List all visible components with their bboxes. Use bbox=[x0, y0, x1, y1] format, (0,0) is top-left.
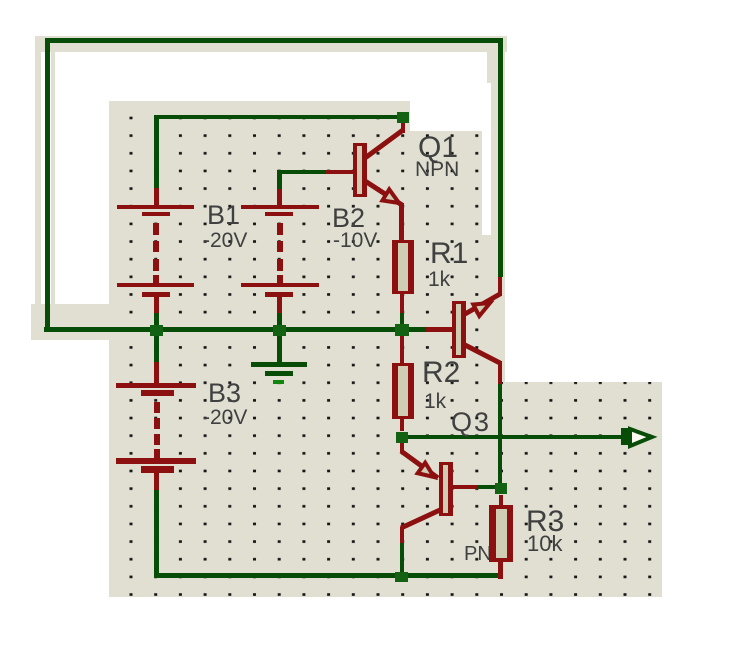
resistor R3 bbox=[489, 505, 513, 562]
wire: B3 bottom green bbox=[154, 490, 159, 578]
grid background: main sheet bbox=[109, 101, 488, 597]
transistor Q1 base lead red bbox=[326, 170, 354, 174]
wire: B1 bottom pin red bbox=[154, 297, 159, 313]
wire: R2 top pin red bbox=[400, 336, 404, 363]
transistor Q2 lower diagonal bbox=[465, 345, 500, 363]
transistor Q2 emitter arrow bbox=[473, 303, 490, 316]
battery B2 cell1 long plate bbox=[241, 205, 319, 209]
grid background: right wire band bbox=[487, 36, 505, 383]
wire: R2 bottom pin red bbox=[400, 419, 404, 431]
wire: output bbox=[408, 435, 622, 439]
grid background: mid bus band bbox=[31, 304, 109, 340]
wire: B3 bottom pin red bbox=[154, 473, 159, 490]
svg-text:1k: 1k bbox=[428, 268, 451, 291]
svg-text:Q3: Q3 bbox=[451, 407, 491, 437]
wire: B1 bottom green bbox=[154, 313, 159, 327]
white sliver bbox=[482, 83, 491, 235]
battery B3 cell2 short plate bbox=[141, 466, 174, 473]
wire: outer loop top bbox=[46, 38, 503, 43]
transistor Q3 collector wire bbox=[401, 510, 440, 528]
grid dots main sheet bbox=[109, 104, 488, 597]
white notch top right bbox=[410, 52, 487, 131]
battery B2 cell2 long plate bbox=[241, 283, 319, 287]
wire: B3 top green bbox=[154, 334, 159, 362]
grid background: top wire band bbox=[35, 36, 507, 52]
transistor Q1 bar bbox=[353, 143, 367, 197]
battery B1 cell2 short plate bbox=[142, 292, 170, 297]
wire: B2 top pin red bbox=[277, 189, 282, 205]
resistor R1 bbox=[392, 240, 414, 294]
transistor Q3 base red bbox=[452, 485, 477, 489]
wire: Q2 base green bbox=[409, 327, 426, 332]
svg-text:B3: B3 bbox=[208, 378, 241, 408]
grid background: right extension sheet bbox=[488, 382, 662, 597]
transistor Q3 base green bbox=[477, 485, 495, 489]
svg-text:-10V: -10V bbox=[333, 229, 377, 252]
battery B3 cell2 long plate bbox=[116, 458, 196, 464]
battery B1 cell1 long plate bbox=[117, 205, 194, 209]
wire: B2 bottom pin red bbox=[277, 297, 282, 313]
battery B2 cell2 short plate bbox=[265, 292, 293, 297]
wire: Q2 base red bbox=[426, 327, 452, 332]
junction R1 bus bbox=[395, 324, 409, 336]
wire: B3 top pin red bbox=[154, 362, 159, 383]
wire: R3 top pin red bbox=[499, 495, 503, 505]
battery B1 dashes bbox=[153, 223, 159, 283]
transistor Q3 bar bbox=[439, 462, 453, 516]
junction B1 bus bbox=[150, 325, 163, 336]
svg-text:R1: R1 bbox=[430, 237, 468, 270]
wire: ground drop bbox=[277, 334, 282, 362]
wire: B1 top pin red bbox=[154, 188, 159, 205]
junction top collector bus bbox=[397, 112, 409, 123]
transistor Q1 collector wire bbox=[401, 122, 405, 133]
transistor Q3 emitter wire bbox=[400, 443, 404, 453]
junction output node bbox=[396, 432, 408, 443]
battery B1 cell1 short plate bbox=[142, 212, 170, 216]
junction B2 bus bbox=[273, 325, 286, 336]
ground symbol bar2 bbox=[265, 371, 293, 376]
wire: B2 bottom green bbox=[277, 313, 282, 327]
battery B1 cell2 long plate bbox=[117, 283, 194, 287]
battery B3 dashes bbox=[154, 402, 160, 458]
svg-text:NPN: NPN bbox=[415, 158, 459, 181]
svg-text:1k: 1k bbox=[424, 390, 447, 413]
grid dots right extension bbox=[488, 382, 662, 597]
wire: R1 bottom bbox=[400, 294, 404, 313]
battery B2 cell1 short plate bbox=[265, 212, 293, 216]
transistor Q1 emitter arrow bbox=[382, 189, 399, 203]
wire: mid bus bbox=[44, 327, 409, 332]
transistor Q1 emitter wire bbox=[365, 181, 402, 205]
wire: B2 riser horizontal green bbox=[278, 170, 326, 174]
resistor R2 bbox=[392, 363, 414, 419]
junction rail node bbox=[395, 572, 408, 582]
ground symbol bar1 bbox=[251, 362, 307, 367]
transistor Q3 emitter arrow bbox=[418, 463, 434, 477]
junction Q3 base node bbox=[495, 483, 507, 494]
wire: lower vertical green bbox=[498, 384, 502, 483]
battery B3 cell1 short plate bbox=[141, 390, 174, 396]
svg-text:10k: 10k bbox=[527, 531, 563, 556]
wire: collector bus y117 bbox=[157, 115, 397, 119]
wire: R3 bottom pin red bbox=[498, 562, 503, 579]
output terminal arrow bbox=[621, 428, 630, 445]
ground symbol bar3 bbox=[273, 380, 284, 384]
svg-text:-20V: -20V bbox=[203, 229, 247, 252]
wire: outer loop left bbox=[45, 38, 50, 332]
transistor Q2 bar bbox=[452, 301, 466, 358]
wire: B2 riser vertical green bbox=[277, 170, 282, 189]
wire: B1 top drop green bbox=[154, 115, 159, 188]
svg-text:-20V: -20V bbox=[203, 406, 247, 429]
svg-text:B1: B1 bbox=[207, 200, 240, 230]
svg-text:R2: R2 bbox=[422, 356, 460, 389]
wire: outer loop right (green upper) bbox=[498, 38, 503, 277]
transistor Q2 collector wire upper bbox=[498, 277, 502, 296]
grid background: left wire band strips bbox=[35, 36, 41, 304]
battery B3 cell1 long plate bbox=[116, 383, 196, 388]
wire: bottom rail bbox=[155, 573, 503, 578]
battery B2 dashes bbox=[277, 223, 283, 283]
